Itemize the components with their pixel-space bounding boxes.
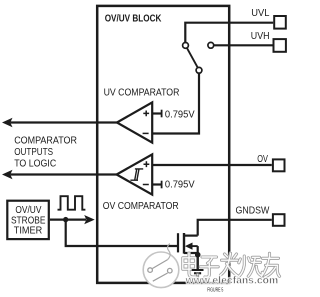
- svg-text:0.795V: 0.795V: [165, 179, 195, 190]
- transistor Q1 body arrow: [185, 243, 198, 250]
- junction dot strobe node: [63, 217, 68, 222]
- reference tick 0.795V (OV): [161, 181, 163, 189]
- junction dot source node: [195, 252, 200, 257]
- ground symbol: [192, 270, 204, 276]
- wire switch pole to UV comparator inverting input: [152, 73, 199, 133]
- wire OV comparator inverting input to reference: [152, 183, 161, 185]
- UV comparator minus input glyph: [143, 132, 149, 134]
- op-amp UV comparator: [117, 102, 152, 142]
- switch lever S1: [187, 48, 198, 68]
- wire UV comparator noninverting input to reference: [152, 112, 161, 114]
- op-amp OV comparator: [117, 154, 153, 194]
- svg-text:UVH: UVH: [251, 31, 270, 42]
- svg-text:OUTPUTS: OUTPUTS: [14, 147, 53, 158]
- wire OV comparator output arrow to logic: [11, 173, 117, 175]
- wire UV comparator output arrow to logic: [11, 121, 117, 123]
- transistor Q1 N-MOSFET gate bar: [177, 233, 179, 252]
- svg-text:FIGURE 5: FIGURE 5: [207, 287, 223, 293]
- svg-text:COMPARATOR: COMPARATOR: [14, 135, 77, 146]
- svg-text:OV COMPARATOR: OV COMPARATOR: [103, 201, 179, 212]
- svg-text:UV COMPARATOR: UV COMPARATOR: [104, 88, 180, 99]
- watermark url www.elecfans.com: [185, 275, 279, 286]
- junction dot source node (overlay): [195, 252, 200, 270]
- pulse waveform symbol: [58, 196, 86, 210]
- arrowhead OV output: [2, 170, 13, 179]
- svg-text:UVL: UVL: [251, 8, 269, 19]
- UV comparator plus input glyph: [143, 111, 149, 117]
- watermark logo circle: [143, 244, 179, 288]
- switch pole contact: [196, 67, 202, 73]
- svg-text:www.elecfans.com: www.elecfans.com: [185, 275, 279, 286]
- block OV/UV BLOCK outline: [97, 6, 229, 283]
- arrowhead UV output: [2, 118, 13, 127]
- pin box OV: [273, 159, 285, 171]
- OV comparator minus input glyph: [143, 184, 149, 186]
- wire strobe timer output: [50, 219, 86, 221]
- pin box GNDSW: [273, 214, 285, 226]
- wire GNDSW pin to MOSFET drain: [198, 220, 272, 236]
- ground symbol (overlay): [192, 270, 204, 276]
- switch contact UVL: [183, 43, 189, 49]
- svg-text:OV: OV: [257, 154, 268, 165]
- transistor Q1 drain lead: [184, 235, 198, 237]
- switch contact UVH: [208, 42, 214, 48]
- transistor Q1 source lead: [184, 252, 198, 254]
- label OV/UV STROBE TIMER: [11, 205, 46, 236]
- watermark chinese characters dian zi fa shao you: [183, 253, 280, 277]
- svg-text:0.795V: 0.795V: [165, 109, 195, 120]
- OV comparator hysteresis glyph: [130, 169, 143, 180]
- wire strobe node to MOSFET gate: [66, 220, 177, 246]
- wire OV comparator noninverting input to OV pin: [152, 164, 272, 166]
- wire UVH: [214, 44, 273, 46]
- svg-text:TO LOGIC: TO LOGIC: [14, 158, 56, 169]
- transistor Q1 channel bar: [183, 233, 185, 254]
- svg-text:OV/UV BLOCK: OV/UV BLOCK: [105, 13, 162, 25]
- svg-text:OV/UV: OV/UV: [15, 205, 41, 216]
- svg-text:TIMER: TIMER: [14, 225, 42, 236]
- OV comparator plus input glyph: [144, 161, 150, 167]
- box OV/UV STROBE TIMER: [7, 201, 49, 239]
- label COMPARATOR OUTPUTS TO LOGIC: [14, 135, 77, 169]
- pin box UVL: [274, 16, 286, 29]
- wire UVL to switch: [185, 23, 273, 43]
- wire source to ground: [197, 246, 199, 270]
- svg-text:GNDSW: GNDSW: [236, 205, 270, 216]
- arrowhead strobe to block: [84, 215, 95, 224]
- pin box UVH: [274, 39, 286, 52]
- reference tick 0.795V (UV): [161, 110, 163, 118]
